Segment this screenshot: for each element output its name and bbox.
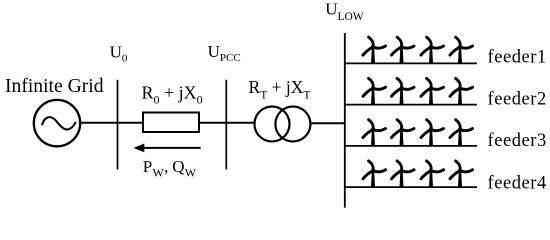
wind turbine F1-2 bbox=[392, 37, 415, 63]
wind turbine F3-2 bbox=[392, 120, 415, 146]
AC source sine wave bbox=[42, 117, 76, 129]
wire: source to resistor R0 bbox=[80, 122, 143, 124]
wire: transformer to bus ULOW bbox=[310, 122, 344, 124]
wind turbine F4-3 bbox=[421, 161, 444, 187]
wire: resistor to transformer bbox=[199, 122, 255, 124]
feeder4 line bbox=[345, 186, 477, 188]
feeder3 line bbox=[345, 145, 477, 147]
transformer T secondary winding bbox=[275, 107, 310, 142]
svg-text:feeder1: feeder1 bbox=[488, 47, 547, 67]
wind turbine F2-3 bbox=[421, 78, 444, 104]
bus UPCC bbox=[225, 80, 227, 170]
wind turbine F3-4 bbox=[450, 120, 473, 146]
svg-text:PW, QW: PW, QW bbox=[143, 157, 197, 179]
svg-text:RT + jXT: RT + jXT bbox=[249, 77, 311, 101]
svg-text:R0 + jX0: R0 + jX0 bbox=[142, 83, 203, 107]
svg-text:feeder2: feeder2 bbox=[488, 90, 547, 110]
svg-text:UPCC: UPCC bbox=[208, 42, 241, 64]
feeder2 line bbox=[345, 104, 477, 106]
wind turbine F3-1 bbox=[363, 120, 386, 146]
wind turbine F4-2 bbox=[392, 161, 415, 187]
transformer T primary winding bbox=[255, 107, 290, 142]
svg-text:feeder4: feeder4 bbox=[488, 174, 547, 194]
wind turbine F2-2 bbox=[392, 78, 415, 104]
wind turbine F3-3 bbox=[421, 120, 444, 146]
power-flow arrow PW,QW bbox=[134, 144, 201, 153]
svg-text:U0: U0 bbox=[110, 42, 128, 64]
feeder1 line bbox=[345, 62, 477, 64]
svg-text:ULOW: ULOW bbox=[325, 0, 364, 23]
wind turbine F4-4 bbox=[450, 161, 473, 187]
wind turbine F2-1 bbox=[363, 78, 386, 104]
AC source: infinite grid bbox=[34, 100, 80, 146]
resistor R0+jX0 bbox=[143, 113, 199, 133]
wind turbine F1-1 bbox=[363, 37, 386, 63]
svg-text:feeder3: feeder3 bbox=[488, 131, 547, 151]
wind turbine F2-4 bbox=[450, 78, 473, 104]
svg-text:Infinite Grid: Infinite Grid bbox=[5, 76, 104, 97]
bus U0 bbox=[117, 80, 119, 170]
wind turbine F4-1 bbox=[363, 161, 386, 187]
wind turbine F1-4 bbox=[450, 37, 473, 63]
wind turbine F1-3 bbox=[421, 37, 444, 63]
bus ULOW bbox=[344, 33, 346, 208]
